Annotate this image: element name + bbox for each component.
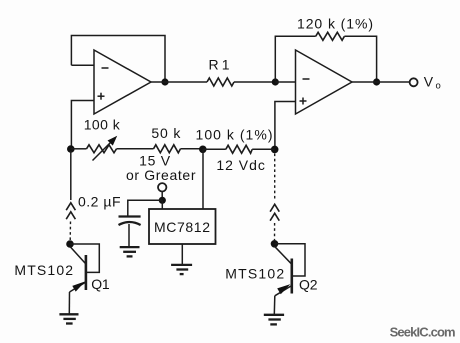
wire regulator ground pin [181,244,183,265]
svg-text:100 k: 100 k [84,117,121,133]
transistor Q2 [274,244,305,315]
svg-text:100 k (1%): 100 k (1%) [196,127,273,143]
svg-text:SeekIC.com: SeekIC.com [390,325,456,340]
resistor 100k 1% [226,145,252,153]
wire U1 non-inverting input [71,101,94,148]
svg-text:MTS102: MTS102 [14,262,73,278]
wire terminal to junction [161,192,163,201]
wire node to 100k 1% [203,148,226,150]
node divider right [271,146,279,154]
ground Q2 [264,315,284,325]
regulator U3 MC7812 [149,209,216,244]
svg-text:V: V [424,73,434,89]
wire U2 non-inverting input [275,102,296,147]
wire regulator output to divider node [202,149,204,209]
potentiometer 100k [87,136,118,161]
svg-text:0.2 µF: 0.2 µF [78,194,121,210]
op-amp U2 [296,50,353,114]
wire potentiometer to 50k [117,148,154,150]
resistor R1 [207,78,234,86]
node Q2 collector-base [271,240,279,248]
wire U2 output [352,81,409,83]
transistor Q1 [69,244,99,314]
resistor 50k [154,145,181,153]
wire U2 feedback left [275,36,315,80]
ground Q1 [59,314,78,323]
node divider mid [199,146,207,154]
wire 50k to node [181,148,203,150]
wire R1 to U2 inverting input [234,81,275,83]
terminal Vo [410,78,418,86]
wire thermal left dashed [69,222,71,241]
capacitor 0.2uF [119,217,141,248]
svg-text:50 k: 50 k [151,125,181,141]
svg-text:or Greater: or Greater [126,167,196,183]
svg-text:R1: R1 [209,57,230,73]
wire U2 feedback right [344,36,376,80]
thermal arrows right [270,204,279,220]
wire U1 inverting input [71,64,94,66]
wire U2 inverting input stub [275,81,295,83]
svg-text:o: o [436,81,441,92]
node U2 output [373,78,380,85]
wire thermal left solid [70,151,72,200]
op-amp U1 [94,50,151,114]
node regulator input [159,197,166,204]
wire node to potentiometer [71,148,87,150]
wire junction to capacitor [128,200,163,215]
thermal arrows left [66,203,75,219]
resistor 120k feedback [316,32,345,40]
terminal 15V input [158,183,166,191]
svg-text:MTS102: MTS102 [225,266,284,282]
label Vo [424,73,441,91]
wire thermal right dashed upper [274,154,276,202]
svg-text:12 Vdc: 12 Vdc [216,157,265,173]
ground capacitor [120,247,140,256]
wire U1 feedback loop [71,36,165,81]
node Q1 collector-base [66,240,74,248]
wire 100k 1% to right node [252,148,275,150]
svg-text:MC7812: MC7812 [154,219,210,235]
svg-text:Q1: Q1 [91,276,110,292]
wire U1 output to R1 [151,81,207,83]
wire junction into regulator [161,200,163,209]
ground regulator [171,265,192,274]
svg-text:120 k (1%): 120 k (1%) [297,16,373,32]
wire thermal right dashed lower [274,223,276,240]
node divider left [67,145,75,153]
svg-text:Q2: Q2 [299,277,318,293]
node U2 inverting input [272,78,279,85]
node U1 output [161,78,168,85]
